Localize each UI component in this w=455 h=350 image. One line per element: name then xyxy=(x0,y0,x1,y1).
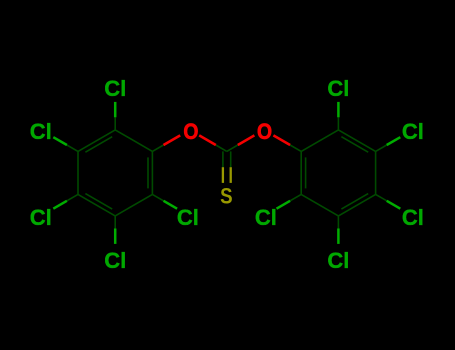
svg-text:Cl: Cl xyxy=(327,248,349,273)
svg-text:Cl: Cl xyxy=(402,205,424,230)
svg-text:Cl: Cl xyxy=(30,119,52,144)
svg-text:Cl: Cl xyxy=(327,76,349,101)
svg-text:O: O xyxy=(183,120,198,144)
svg-text:Cl: Cl xyxy=(255,205,277,230)
svg-text:Cl: Cl xyxy=(177,205,199,230)
svg-text:Cl: Cl xyxy=(30,205,52,230)
svg-text:Cl: Cl xyxy=(104,248,126,273)
svg-text:Cl: Cl xyxy=(104,76,126,101)
svg-text:O: O xyxy=(257,120,272,144)
svg-text:S: S xyxy=(220,185,232,209)
svg-text:Cl: Cl xyxy=(402,119,424,144)
